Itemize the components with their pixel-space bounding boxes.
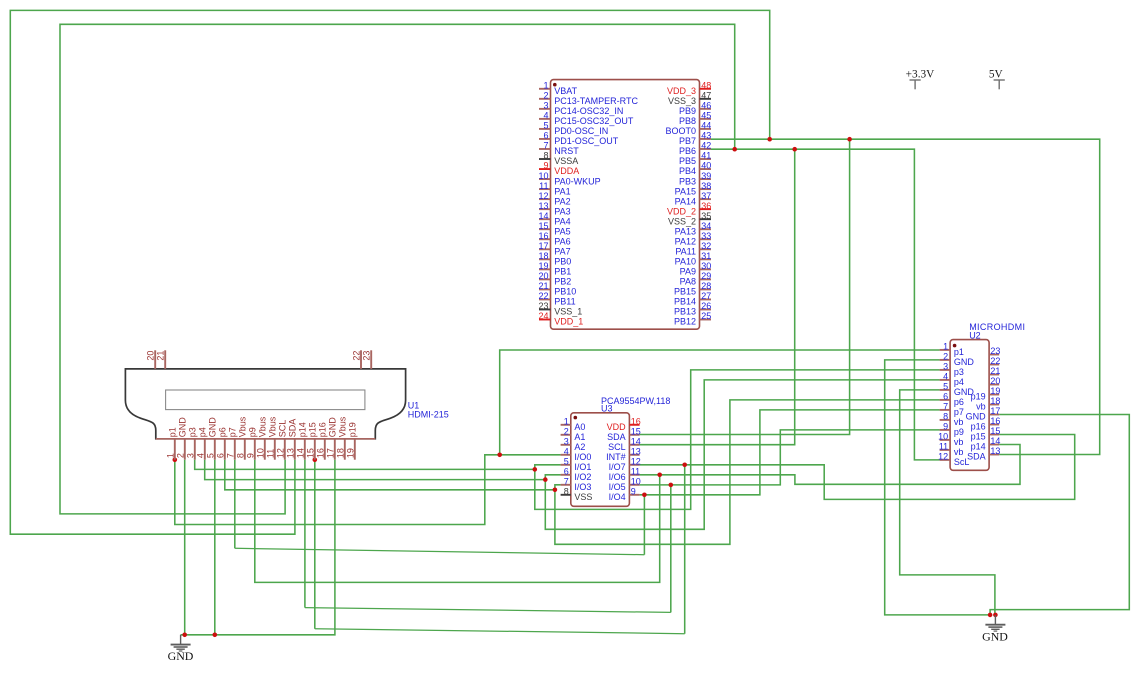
svg-text:37: 37 xyxy=(701,191,711,201)
svg-text:13: 13 xyxy=(990,446,1000,456)
svg-text:I/O1: I/O1 xyxy=(574,462,591,472)
U1 pin 11 Vbus xyxy=(274,439,276,460)
svg-text:p19: p19 xyxy=(348,422,358,437)
MCU pin 21 PB10 xyxy=(539,288,551,290)
svg-text:9: 9 xyxy=(543,161,548,171)
MCU pin 30 PA9 xyxy=(700,268,712,270)
svg-text:6: 6 xyxy=(943,392,948,402)
svg-text:PA10: PA10 xyxy=(675,257,696,267)
MCU pin 41 PB5 xyxy=(700,158,712,160)
wire net p3: U1 pin3 staircase xyxy=(195,460,535,470)
MCU pin 35 VSS_2 xyxy=(700,218,712,220)
U3 pin 2 A1 xyxy=(561,434,571,436)
svg-text:1: 1 xyxy=(166,453,176,458)
svg-text:PA5: PA5 xyxy=(554,226,570,236)
U1 pin 18 Vbus xyxy=(344,439,346,460)
svg-text:p1: p1 xyxy=(954,347,964,357)
U3 pin 7 I/O3 xyxy=(561,484,571,486)
U1 pin 22 xyxy=(360,350,362,369)
svg-text:15: 15 xyxy=(538,221,548,231)
svg-text:9: 9 xyxy=(943,422,948,432)
svg-text:27: 27 xyxy=(701,291,711,301)
svg-text:30: 30 xyxy=(701,261,711,271)
MCU pin 47 VSS_3 xyxy=(700,98,712,100)
wire net p1: U1 pin1 to U3 pin4 xyxy=(175,455,561,525)
junction GND1 b xyxy=(213,633,218,638)
ground symbol GND2 xyxy=(985,615,1005,631)
svg-text:5V: 5V xyxy=(989,69,1004,81)
U2 pin 10 vb xyxy=(940,439,951,441)
svg-text:34: 34 xyxy=(701,221,711,231)
svg-text:HDMI-215: HDMI-215 xyxy=(408,410,449,420)
MCU pin 7 NRST xyxy=(539,148,551,150)
svg-text:2: 2 xyxy=(176,453,186,458)
U3 pin1 marker xyxy=(574,416,578,420)
IC U2 body xyxy=(950,340,989,471)
U1 pin 5 GND xyxy=(214,439,216,460)
svg-text:19: 19 xyxy=(990,386,1000,396)
junction U3 pin9 row xyxy=(642,493,647,498)
svg-text:17: 17 xyxy=(538,241,548,251)
MCU pin 18 PB0 xyxy=(539,258,551,260)
svg-text:11: 11 xyxy=(631,467,640,477)
junction U3 pin4 row xyxy=(497,453,502,458)
U2 pin 1 p1 xyxy=(940,349,951,351)
svg-text:31: 31 xyxy=(701,251,711,261)
svg-text:7: 7 xyxy=(943,402,948,412)
MCU pin 16 PA6 xyxy=(539,238,551,240)
MCU pin 20 PB2 xyxy=(539,278,551,280)
ground symbol GND1 xyxy=(171,635,191,651)
svg-text:14: 14 xyxy=(631,437,641,447)
MCU pin 33 PA12 xyxy=(700,238,712,240)
U3 pin 16 VDD xyxy=(629,424,639,426)
svg-text:p7: p7 xyxy=(228,427,238,437)
svg-text:p1: p1 xyxy=(168,427,178,437)
svg-text:41: 41 xyxy=(701,151,711,161)
U2 pin 4 p4 xyxy=(940,379,951,381)
svg-text:PC15-OSC32_OUT: PC15-OSC32_OUT xyxy=(554,116,634,126)
svg-text:6: 6 xyxy=(216,453,226,458)
svg-text:16: 16 xyxy=(538,231,548,241)
svg-text:p3: p3 xyxy=(954,367,964,377)
svg-text:42: 42 xyxy=(701,141,711,151)
svg-text:PA7: PA7 xyxy=(554,246,570,256)
wire U2 pin5 GND xyxy=(900,390,995,615)
svg-text:I/O5: I/O5 xyxy=(609,482,626,492)
svg-text:4: 4 xyxy=(564,447,569,457)
MCU pin 44 BOOT0 xyxy=(700,128,712,130)
svg-text:43: 43 xyxy=(701,131,711,141)
svg-text:4: 4 xyxy=(943,372,948,382)
svg-text:4: 4 xyxy=(196,453,206,458)
MCU pin 9 VDDA xyxy=(539,168,551,170)
U2 pin 8 vb xyxy=(940,419,951,421)
MCU pin 10 PA0-WKUP xyxy=(539,178,551,180)
svg-text:44: 44 xyxy=(701,121,711,131)
svg-text:7: 7 xyxy=(543,141,548,151)
svg-text:36: 36 xyxy=(701,201,711,211)
svg-text:32: 32 xyxy=(701,241,711,251)
MCU pin1 marker xyxy=(553,83,557,87)
svg-text:12: 12 xyxy=(276,448,286,458)
svg-text:U3: U3 xyxy=(601,404,613,414)
U3 pin 12 I/O7 xyxy=(629,464,639,466)
connector U1 tongue xyxy=(166,390,365,410)
svg-text:PC14-OSC32_IN: PC14-OSC32_IN xyxy=(554,106,623,116)
svg-text:Vbus: Vbus xyxy=(268,416,278,437)
svg-text:p7: p7 xyxy=(954,407,964,417)
svg-text:7: 7 xyxy=(226,453,236,458)
MCU pin 25 PB12 xyxy=(700,318,712,320)
wire net p6: U1 pin6 staircase xyxy=(225,460,555,490)
svg-text:A0: A0 xyxy=(574,422,585,432)
junction U3 pin7 net xyxy=(553,488,558,493)
svg-text:GND: GND xyxy=(954,357,975,367)
svg-text:48: 48 xyxy=(701,81,711,91)
junction GND2 a xyxy=(988,613,993,618)
svg-text:PB4: PB4 xyxy=(679,166,696,176)
svg-text:p3: p3 xyxy=(188,427,198,437)
svg-text:VSS_2: VSS_2 xyxy=(668,216,696,226)
svg-text:24: 24 xyxy=(538,311,548,321)
svg-text:PA11: PA11 xyxy=(675,246,696,256)
svg-text:16: 16 xyxy=(990,416,1000,426)
MCU pin 29 PA8 xyxy=(700,278,712,280)
U2 pin 20 xyxy=(989,384,999,386)
wire net I/O5: U3 pin10 to U2 pin9 xyxy=(640,430,940,485)
svg-text:8: 8 xyxy=(543,151,548,161)
MCU pin 38 PA15 xyxy=(700,188,712,190)
svg-text:9: 9 xyxy=(631,487,636,497)
svg-text:PB15: PB15 xyxy=(674,287,696,297)
U1 pin 19 p19 xyxy=(354,439,356,460)
U2 pin 23 xyxy=(989,354,999,356)
U1 pin 21 xyxy=(164,350,166,369)
svg-text:VDD_2: VDD_2 xyxy=(667,206,696,216)
wire SDA branch to U3 pin15 xyxy=(640,139,850,434)
U1 pin 14 p14 xyxy=(304,439,306,460)
U3 pin 1 A0 xyxy=(561,424,571,426)
MCU pin 40 PB4 xyxy=(700,168,712,170)
U1 pin 4 p4 xyxy=(204,439,206,460)
svg-text:22: 22 xyxy=(990,356,1000,366)
svg-text:PA4: PA4 xyxy=(554,216,570,226)
svg-text:1: 1 xyxy=(943,342,948,352)
svg-text:Vbus: Vbus xyxy=(238,416,248,437)
svg-text:15: 15 xyxy=(306,448,316,458)
svg-text:PB0: PB0 xyxy=(554,257,571,267)
wire net I/O6: U3 pin11 to U2 pin14 xyxy=(640,445,1020,485)
svg-text:GND: GND xyxy=(328,417,338,438)
MCU pin 39 PB3 xyxy=(700,178,712,180)
svg-text:p9: p9 xyxy=(248,427,258,437)
junction U3 pin6 net xyxy=(543,477,548,482)
svg-text:3: 3 xyxy=(564,437,569,447)
svg-text:4: 4 xyxy=(543,111,548,121)
svg-text:PB14: PB14 xyxy=(674,297,696,307)
junction U3 pin5 net xyxy=(533,467,538,472)
svg-text:GND: GND xyxy=(982,629,1008,643)
wire U2 pin2 GND xyxy=(885,360,990,615)
U3 pin 13 INT# xyxy=(629,454,639,456)
svg-text:PA6: PA6 xyxy=(554,236,570,246)
U3 pin 9 I/O4 xyxy=(629,494,639,496)
svg-text:p9: p9 xyxy=(954,427,964,437)
U2 pin 3 p3 xyxy=(940,369,951,371)
svg-text:14: 14 xyxy=(538,211,548,221)
svg-text:SDA: SDA xyxy=(607,432,626,442)
U2 pin 5 GND xyxy=(940,389,951,391)
svg-text:PA2: PA2 xyxy=(554,196,570,206)
svg-text:26: 26 xyxy=(701,301,711,311)
svg-text:29: 29 xyxy=(701,271,711,281)
power symbol 5V xyxy=(994,80,1005,89)
svg-text:PB11: PB11 xyxy=(554,297,575,307)
MCU pin 17 PA7 xyxy=(539,248,551,250)
U3 pin 15 SDA xyxy=(629,434,639,436)
MCU pin 45 PB8 xyxy=(700,118,712,120)
U1 pin 15 p15 xyxy=(314,439,316,460)
wire U1 pin2 GND drop xyxy=(184,460,186,635)
U1 pin 13 SDA xyxy=(294,439,296,460)
svg-text:5: 5 xyxy=(543,121,548,131)
svg-text:Vbus: Vbus xyxy=(338,416,348,437)
svg-text:INT#: INT# xyxy=(606,452,626,462)
svg-text:PB9: PB9 xyxy=(679,106,696,116)
junction U1 pin1 xyxy=(173,458,178,463)
svg-text:PB7: PB7 xyxy=(679,136,696,146)
MCU pin 15 PA5 xyxy=(539,228,551,230)
svg-text:VDDA: VDDA xyxy=(554,166,579,176)
svg-text:22: 22 xyxy=(538,291,548,301)
svg-text:p16: p16 xyxy=(971,422,986,432)
svg-text:15: 15 xyxy=(631,427,641,437)
svg-text:PB1: PB1 xyxy=(554,267,571,277)
svg-text:PA0-WKUP: PA0-WKUP xyxy=(554,176,600,186)
svg-text:13: 13 xyxy=(286,448,296,458)
U1 pin 10 Vbus xyxy=(264,439,266,460)
MCU pin 11 PA1 xyxy=(539,188,551,190)
svg-text:p15: p15 xyxy=(308,422,318,437)
svg-text:SDA: SDA xyxy=(967,452,986,462)
wire SDA outer loop (MCU PB7 to U1 p13) xyxy=(10,10,769,534)
svg-text:p14: p14 xyxy=(298,422,308,437)
svg-text:I/O6: I/O6 xyxy=(609,472,626,482)
MCU pin 13 PA3 xyxy=(539,208,551,210)
wire SCL branch to U3 pin14 xyxy=(640,149,795,445)
svg-text:45: 45 xyxy=(701,111,711,121)
junction PB7/SDA branch xyxy=(847,137,852,142)
MCU pin 12 PA2 xyxy=(539,198,551,200)
wire net p14: U1 pin14 diagonal to U3 pin10 xyxy=(304,460,306,608)
MCU pin 34 PA13 xyxy=(700,228,712,230)
svg-text:GND: GND xyxy=(208,417,218,438)
svg-text:21: 21 xyxy=(156,351,166,361)
svg-text:10: 10 xyxy=(256,448,266,458)
svg-text:PD0-OSC_IN: PD0-OSC_IN xyxy=(554,126,608,136)
svg-text:U2: U2 xyxy=(969,330,981,340)
wire net p4: U3 pin6 I/O2 to U2 pin4 xyxy=(545,380,939,529)
svg-text:VSS_3: VSS_3 xyxy=(668,96,696,106)
wire GND rail right to U2 pin17 xyxy=(990,415,1129,615)
svg-text:15: 15 xyxy=(990,426,1000,436)
wire net I/O7: U3 pin12 to U2 pin15 xyxy=(640,435,1075,500)
junction PB6/SCL branch xyxy=(792,147,797,152)
svg-text:21: 21 xyxy=(538,281,548,291)
svg-text:SDA: SDA xyxy=(288,419,298,438)
svg-text:40: 40 xyxy=(701,161,711,171)
MCU pin 42 PB6 xyxy=(700,148,712,150)
svg-text:3: 3 xyxy=(186,453,196,458)
svg-text:12: 12 xyxy=(538,191,548,201)
U3 pin 5 I/O1 xyxy=(561,464,571,466)
svg-text:19: 19 xyxy=(538,261,548,271)
svg-text:38: 38 xyxy=(701,181,711,191)
U2 pin 22 xyxy=(989,364,999,366)
svg-text:8: 8 xyxy=(236,453,246,458)
U1 pin 16 p16 xyxy=(324,439,326,460)
U2 pin 17 GND xyxy=(989,414,999,416)
svg-text:5: 5 xyxy=(564,457,569,467)
svg-text:Vbus: Vbus xyxy=(258,416,268,437)
MCU pin 26 PB13 xyxy=(700,308,712,310)
U3 pin 8 VSS xyxy=(561,494,571,496)
MCU pin 23 VSS_1 xyxy=(539,308,551,310)
U1 pin 9 p9 xyxy=(254,439,256,460)
svg-text:33: 33 xyxy=(701,231,711,241)
svg-text:10: 10 xyxy=(631,477,641,487)
svg-text:2: 2 xyxy=(543,91,548,101)
svg-text:PC13-TAMPER-RTC: PC13-TAMPER-RTC xyxy=(554,96,638,106)
svg-text:p16: p16 xyxy=(318,422,328,437)
wire MCU pin42 PB6 row / SCL to U2 pin12 xyxy=(711,149,940,460)
svg-text:PA14: PA14 xyxy=(675,196,696,206)
MCU pin 32 PA11 xyxy=(700,248,712,250)
MCU pin 27 PB14 xyxy=(700,298,712,300)
svg-text:PB2: PB2 xyxy=(554,277,571,287)
junction U1 pin15 xyxy=(313,458,318,463)
svg-text:PB12: PB12 xyxy=(674,317,696,327)
U3 pin 3 A2 xyxy=(561,444,571,446)
svg-text:PA8: PA8 xyxy=(680,277,696,287)
svg-text:3: 3 xyxy=(943,362,948,372)
U1 pin 7 p7 xyxy=(234,439,236,460)
svg-text:I/O0: I/O0 xyxy=(574,452,591,462)
svg-text:PA12: PA12 xyxy=(675,236,696,246)
U1 pin 2 GND xyxy=(184,439,186,460)
svg-text:23: 23 xyxy=(362,351,372,361)
svg-text:23: 23 xyxy=(538,301,548,311)
U2 pin 9 p9 xyxy=(940,429,951,431)
svg-text:11: 11 xyxy=(266,449,276,458)
svg-text:VSS: VSS xyxy=(574,492,592,502)
svg-text:I/O4: I/O4 xyxy=(609,492,626,502)
svg-text:SCL: SCL xyxy=(608,442,626,452)
svg-text:PB13: PB13 xyxy=(674,307,696,317)
wire MCU pin43 PB7 row / SDA to U2 pin13 xyxy=(711,139,1100,454)
svg-text:vb: vb xyxy=(976,402,986,412)
svg-text:10: 10 xyxy=(538,171,548,181)
svg-text:23: 23 xyxy=(990,346,1000,356)
svg-text:16: 16 xyxy=(631,417,641,427)
junction GND2 b xyxy=(993,613,998,618)
svg-text:I/O3: I/O3 xyxy=(574,482,591,492)
U1 pin 20 xyxy=(154,350,156,369)
MCU pin 22 PB11 xyxy=(539,298,551,300)
svg-text:p6: p6 xyxy=(954,397,964,407)
svg-text:VDD_3: VDD_3 xyxy=(667,86,696,96)
U2 pin 14 p14 xyxy=(989,444,999,446)
svg-text:9: 9 xyxy=(246,453,256,458)
svg-text:18: 18 xyxy=(538,251,548,261)
wire net p9: U1 pin9 to U3 pin11 xyxy=(255,460,660,583)
junction PB6/inner loop xyxy=(732,147,737,152)
MCU body xyxy=(551,80,700,330)
svg-text:p15: p15 xyxy=(971,432,986,442)
svg-text:17: 17 xyxy=(990,406,1000,416)
svg-text:6: 6 xyxy=(543,131,548,141)
svg-text:p4: p4 xyxy=(198,427,208,437)
U1 pin 6 p6 xyxy=(224,439,226,460)
wire net p3: U3 pin5 I/O1 to U2 pin3 xyxy=(535,370,940,510)
svg-text:VDD: VDD xyxy=(607,422,627,432)
svg-text:NRST: NRST xyxy=(554,146,579,156)
svg-text:VDD_1: VDD_1 xyxy=(554,317,583,327)
MCU pin 48 VDD_3 xyxy=(700,88,712,90)
U1 pin 1 p1 xyxy=(174,439,176,460)
svg-text:14: 14 xyxy=(990,436,1000,446)
wire net p7: U3 pin9 I/O4 to U2 pin7 xyxy=(640,410,940,495)
MCU pin 4 PC15-OSC32_OUT xyxy=(539,118,551,120)
svg-text:I/O2: I/O2 xyxy=(574,472,591,482)
U2 pin 16 p16 xyxy=(989,424,999,426)
svg-text:vb: vb xyxy=(954,417,964,427)
svg-text:PB3: PB3 xyxy=(679,176,696,186)
svg-text:A1: A1 xyxy=(574,432,585,442)
MCU pin 24 VDD_1 xyxy=(539,318,551,320)
U2 pin 19 p19 xyxy=(989,394,999,396)
svg-text:PA3: PA3 xyxy=(554,206,570,216)
svg-text:PA9: PA9 xyxy=(680,267,696,277)
U1 pin 23 xyxy=(370,350,372,369)
svg-text:35: 35 xyxy=(701,211,711,221)
junction GND1 a xyxy=(182,633,187,638)
junction PB7/outer loop xyxy=(767,137,772,142)
MCU pin 46 PB9 xyxy=(700,108,712,110)
junction U3 pin11 row xyxy=(657,473,662,478)
U3 pin 4 I/O0 xyxy=(561,454,571,456)
svg-text:39: 39 xyxy=(701,171,711,181)
svg-text:2: 2 xyxy=(943,352,948,362)
IC U3 body xyxy=(571,413,630,507)
svg-text:3: 3 xyxy=(543,101,548,111)
MCU pin 8 VSSA xyxy=(539,158,551,160)
svg-text:GND: GND xyxy=(178,417,188,438)
svg-text:VSSA: VSSA xyxy=(554,156,578,166)
svg-text:GND: GND xyxy=(966,412,987,422)
svg-text:p19: p19 xyxy=(971,392,986,402)
MCU pin 3 PC14-OSC32_IN xyxy=(539,108,551,110)
wire net p7: U1 pin7 diagonal to U3 pin9 xyxy=(234,460,236,549)
MCU pin 14 PA4 xyxy=(539,218,551,220)
U3 pin 14 SCL xyxy=(629,444,639,446)
junction U3 pin10 row xyxy=(669,483,674,488)
U1 pin 12 SCL xyxy=(284,439,286,460)
svg-text:1: 1 xyxy=(543,81,548,91)
svg-text:p4: p4 xyxy=(954,377,964,387)
wire U1 pin5 GND drop xyxy=(214,460,216,635)
